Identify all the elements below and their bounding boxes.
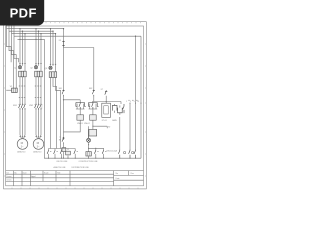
svg-text:Q1: Q1 bbox=[14, 67, 17, 69]
overload relay F2 three-box bbox=[35, 71, 43, 77]
svg-text:Scale: Scale bbox=[44, 172, 49, 174]
svg-text:Date: Date bbox=[116, 177, 120, 180]
relay box KT1 bbox=[102, 103, 111, 117]
coil KM1 bbox=[77, 115, 84, 120]
contact SB3 above relay box bbox=[105, 90, 108, 94]
junction dots bank header bbox=[88, 148, 96, 149]
indicator circles bottom right bbox=[123, 151, 133, 153]
svg-text:Title: Title bbox=[57, 171, 60, 174]
junction dot below lamp bbox=[88, 144, 89, 145]
svg-text:MAIN: MAIN bbox=[112, 119, 117, 122]
wire staircase step 1 bbox=[7, 29, 12, 63]
svg-text:1: 1 bbox=[126, 101, 127, 103]
svg-text:Check: Check bbox=[6, 180, 11, 182]
bus PE rail bbox=[18, 39, 45, 158]
svg-text:Q2: Q2 bbox=[30, 67, 33, 69]
svg-text:PDF: PDF bbox=[10, 5, 37, 20]
svg-text:Rev: Rev bbox=[131, 173, 134, 175]
breaker Q1 circle bbox=[18, 64, 25, 69]
bank resistor box bbox=[66, 151, 71, 155]
svg-text:KT-01: KT-01 bbox=[102, 120, 107, 122]
wire coil B return bbox=[88, 120, 107, 138]
junction dot rung A bbox=[63, 99, 64, 100]
svg-text:SB1: SB1 bbox=[59, 88, 62, 90]
svg-text:CONSTRUCTION LINE: CONSTRUCTION LINE bbox=[79, 161, 99, 163]
junction dots rail bbox=[92, 101, 106, 102]
timer coil box KT bbox=[89, 130, 97, 137]
junction dot coil B return bbox=[92, 126, 93, 127]
wire staircase step 4 bbox=[14, 36, 19, 62]
breaker Q3 circle bbox=[49, 64, 56, 69]
lamp HL1 bbox=[87, 138, 91, 142]
bank contact specks bbox=[50, 151, 106, 152]
wire control rail top bbox=[64, 48, 94, 90]
overload relay F3b three-box bbox=[49, 72, 57, 78]
svg-text:ASM-720: ASM-720 bbox=[33, 151, 41, 154]
overload relay F1 three-box bbox=[19, 71, 27, 77]
svg-text:KM1: KM1 bbox=[13, 105, 17, 107]
wire S0 to bus bbox=[63, 144, 65, 159]
box XT below lamp bbox=[86, 152, 91, 159]
breaker Q2 circle bbox=[34, 64, 41, 69]
interlock cluster D bbox=[112, 104, 124, 115]
motor M1 bbox=[17, 139, 28, 150]
wire branch1 phase drops bbox=[20, 29, 25, 71]
contact cluster A start-stop bbox=[76, 103, 86, 110]
bank contact 4 bbox=[74, 150, 75, 154]
coil KM2 bbox=[90, 115, 97, 120]
bottom right contacts bbox=[118, 150, 135, 159]
XT box inner tick bbox=[87, 152, 89, 156]
supply meter box bbox=[12, 88, 18, 92]
wire stubs under badge bbox=[7, 26, 15, 37]
terminal ticks above motors bbox=[19, 136, 42, 138]
wire right feeders bbox=[120, 36, 141, 158]
contact mid 2 bbox=[102, 150, 103, 154]
title block texts bbox=[6, 171, 133, 181]
wire lamp down bbox=[89, 142, 104, 151]
fuse F3 bbox=[62, 40, 64, 47]
wire staircase step 3 bbox=[12, 34, 17, 88]
svg-text:Date: Date bbox=[23, 171, 27, 174]
border zone tick marks bottom bbox=[12, 188, 138, 189]
inner drawing frame bbox=[6, 26, 144, 186]
bus N bbox=[14, 35, 141, 37]
svg-text:F3: F3 bbox=[59, 40, 61, 42]
svg-text:Drawn: Drawn bbox=[6, 176, 11, 178]
junction dots bottom bus bbox=[48, 158, 136, 159]
bus L3 bbox=[12, 33, 56, 35]
wire branch1 to contacts bbox=[20, 77, 41, 104]
contact S0 bottom left bbox=[62, 137, 65, 144]
NC ticks right bbox=[128, 100, 141, 104]
svg-text:KM2: KM2 bbox=[29, 105, 33, 107]
switch SB2 bbox=[92, 90, 95, 97]
wire control branch drop bbox=[51, 29, 56, 72]
wire number specks group2 bbox=[35, 86, 41, 98]
svg-text:SB2: SB2 bbox=[89, 88, 92, 90]
svg-text:Q3: Q3 bbox=[45, 68, 48, 70]
wire rung feeds bbox=[64, 96, 122, 104]
wire bank header left bbox=[49, 149, 76, 159]
contact cluster B start-stop bbox=[89, 103, 99, 110]
svg-text:KM-720 LINE: KM-720 LINE bbox=[57, 161, 69, 163]
page outer border bbox=[4, 22, 147, 189]
wire branch3 staircase down bbox=[51, 77, 61, 148]
bank contact 2 bbox=[54, 150, 55, 154]
svg-text:13: 13 bbox=[137, 101, 139, 103]
svg-text:ASM-720: ASM-720 bbox=[17, 151, 25, 154]
box below S0 bbox=[62, 148, 66, 152]
contact mid 1 bbox=[94, 150, 95, 154]
wire motor leads with terminals bbox=[20, 110, 41, 138]
svg-text:W1: W1 bbox=[10, 86, 13, 88]
bank contact 3 bbox=[60, 150, 61, 154]
wire staircase step 2 bbox=[9, 31, 14, 88]
svg-text:No: No bbox=[116, 173, 118, 175]
bus L1 bbox=[7, 28, 64, 30]
border zone tick marks top bbox=[46, 22, 141, 24]
svg-text:ASM-720 LINE: ASM-720 LINE bbox=[54, 166, 67, 169]
svg-text:DISTRIBUTION LINE: DISTRIBUTION LINE bbox=[72, 167, 90, 169]
PDF badge bbox=[0, 0, 44, 26]
svg-text:KM-05(3-4)A: KM-05(3-4)A bbox=[107, 150, 118, 153]
wire coil A return loop bbox=[64, 100, 81, 140]
wire to coils bbox=[80, 109, 93, 115]
svg-text:Appd: Appd bbox=[31, 175, 35, 178]
wire branch2 phase drops bbox=[36, 29, 41, 71]
svg-text:KM-02: KM-02 bbox=[84, 123, 90, 125]
wire number specks group1 bbox=[19, 86, 25, 98]
switch SB1 bbox=[62, 90, 65, 97]
wire box feed bbox=[89, 126, 93, 138]
NC contact text row right bbox=[126, 101, 139, 103]
bus L2 bbox=[9, 30, 53, 32]
contactor KM1 main contacts bbox=[19, 103, 27, 110]
wire stub to frame bbox=[6, 89, 11, 91]
motor M2 bbox=[33, 139, 44, 150]
border zone tick marks sides bbox=[4, 44, 147, 176]
wire control feed drop bbox=[63, 29, 65, 41]
contactor KM2 main contacts bbox=[35, 103, 43, 110]
svg-text:TC-01: TC-01 bbox=[60, 136, 62, 141]
bottom bus bbox=[44, 157, 141, 159]
svg-text:5: 5 bbox=[134, 101, 135, 103]
wire bank drops mid bbox=[96, 148, 104, 158]
bank contact 1 bbox=[47, 150, 48, 154]
svg-text:By: By bbox=[14, 172, 16, 174]
junction dots on buses bbox=[19, 28, 136, 40]
